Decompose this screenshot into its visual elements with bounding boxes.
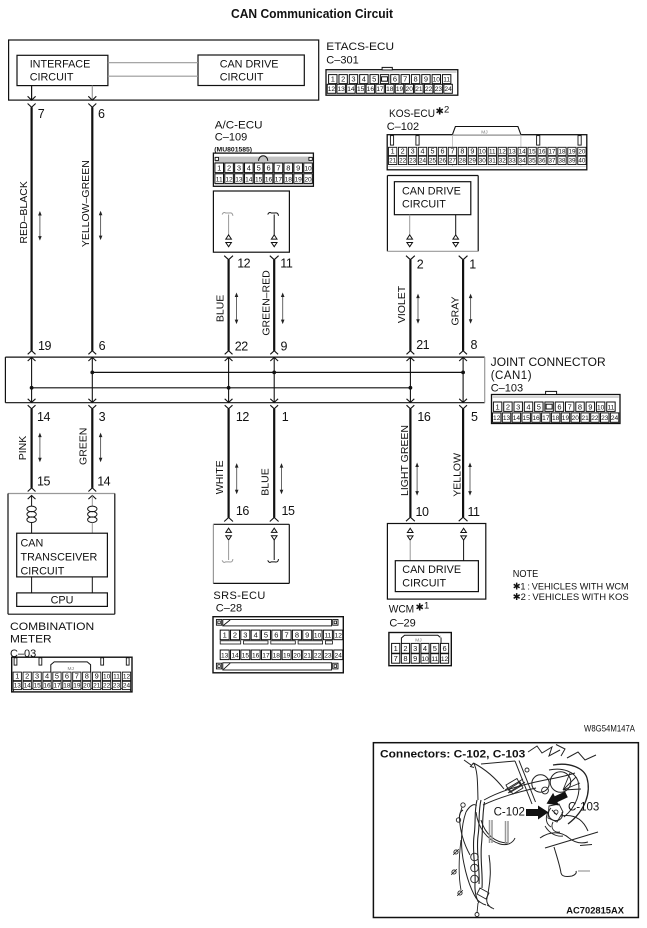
twisted-pair marker pin11 — [271, 235, 277, 239]
twisted-pair marker WCM 10 — [407, 528, 413, 532]
svg-text:22: 22 — [399, 157, 407, 164]
svg-text:3: 3 — [237, 164, 241, 173]
wire stub pin7 inside ETACS — [31, 86, 33, 101]
svg-text:2: 2 — [341, 75, 345, 84]
signal arrow PINK — [39, 436, 41, 459]
connector C-28 pin table — [213, 617, 343, 673]
svg-text:MJ: MJ — [481, 129, 488, 135]
svg-text:5: 5 — [257, 164, 261, 173]
wire BLUE (A/C 12 to joint 22) — [228, 260, 230, 351]
svg-text:12: 12 — [123, 674, 131, 681]
svg-text:CAN DRIVE: CAN DRIVE — [220, 58, 279, 70]
wire transceiver-to-CPU left — [31, 577, 33, 593]
svg-text:AC702815AX: AC702815AX — [566, 906, 624, 917]
svg-text:11: 11 — [280, 256, 293, 270]
svg-text:2: 2 — [444, 105, 449, 116]
svg-text:5: 5 — [433, 644, 437, 653]
svg-text:CIRCUIT: CIRCUIT — [220, 71, 264, 83]
svg-text:10: 10 — [421, 656, 429, 663]
joint connector bottom chevrons 9/1 — [270, 399, 278, 403]
svg-text:SRS-ECU: SRS-ECU — [213, 590, 265, 602]
svg-text:6: 6 — [266, 164, 270, 173]
joint connector bottom chevrons 6/3 — [88, 399, 96, 403]
joint connector bottom chevrons 21/16 — [407, 399, 415, 403]
twisted-pair marker pin2 — [407, 235, 413, 239]
signal arrow BLUE lower — [281, 467, 283, 491]
SRS entry chevron pin16 — [224, 518, 233, 522]
svg-text:CIRCUIT: CIRCUIT — [402, 578, 446, 590]
svg-text:20: 20 — [304, 176, 312, 183]
svg-text:MJ: MJ — [415, 638, 422, 644]
svg-text:20: 20 — [406, 86, 414, 93]
svg-text:15: 15 — [529, 149, 537, 156]
svg-text:A/C-ECU: A/C-ECU — [215, 119, 263, 131]
svg-text:WHITE: WHITE — [214, 460, 226, 494]
connector exit chevron pin11 — [270, 256, 279, 260]
svg-text:CAN DRIVE: CAN DRIVE — [402, 564, 461, 576]
svg-text:8: 8 — [460, 147, 464, 156]
joint connector top chevrons 6/3 — [88, 351, 96, 355]
terminal stub SRS 15 — [273, 540, 275, 560]
svg-text:19: 19 — [396, 86, 404, 93]
svg-text:YELLOW: YELLOW — [452, 453, 464, 497]
svg-text:16: 16 — [43, 683, 51, 690]
svg-text:12: 12 — [335, 633, 343, 640]
svg-text:24: 24 — [611, 415, 619, 422]
svg-text:3: 3 — [411, 147, 415, 156]
svg-text:4: 4 — [254, 631, 258, 640]
svg-text:22: 22 — [235, 340, 248, 354]
svg-text:(MU801585): (MU801585) — [214, 146, 252, 153]
svg-text:26: 26 — [439, 157, 447, 164]
svg-text:12: 12 — [328, 86, 336, 93]
svg-text:22: 22 — [591, 415, 599, 422]
terminal stub WCM 11 — [463, 540, 465, 561]
svg-text:18: 18 — [63, 683, 71, 690]
joint connector bottom chevrons 8/5 — [459, 399, 467, 403]
svg-text:16: 16 — [532, 415, 540, 422]
twisted-pair marker SRS 15 — [271, 528, 277, 532]
svg-text:15: 15 — [37, 474, 50, 488]
svg-text:15: 15 — [357, 86, 365, 93]
svg-text:16: 16 — [265, 176, 273, 183]
svg-text:17: 17 — [53, 683, 61, 690]
svg-text:6: 6 — [440, 147, 444, 156]
svg-text:2: 2 — [227, 164, 231, 173]
svg-text:9: 9 — [95, 672, 99, 681]
svg-text:8: 8 — [414, 75, 418, 84]
svg-text:32: 32 — [499, 157, 507, 164]
CAN drive circuit block (WCM) — [395, 561, 478, 592]
connector exit chevron pin12 — [224, 256, 233, 260]
junction node bus-H wire8 — [461, 371, 465, 375]
CAN-H bus line — [92, 371, 463, 373]
svg-text:13: 13 — [337, 86, 345, 93]
svg-text:1: 1 — [331, 75, 335, 84]
signal arrow GREEN — [100, 436, 102, 459]
connector C-102 pin table — [387, 135, 587, 170]
svg-text:RED–BLACK: RED–BLACK — [18, 181, 30, 243]
svg-text:7: 7 — [276, 164, 280, 173]
svg-text:31: 31 — [489, 157, 497, 164]
svg-text:14: 14 — [37, 410, 50, 424]
signal arrow VIOLET — [417, 297, 419, 320]
svg-text:1: 1 — [391, 147, 395, 156]
svg-text:22: 22 — [314, 653, 322, 660]
wire YELLOW-GREEN (pin6 to joint 6) — [91, 107, 93, 350]
svg-text:10: 10 — [304, 166, 312, 173]
svg-text:CAN DRIVE: CAN DRIVE — [402, 186, 461, 198]
svg-text:30: 30 — [479, 157, 487, 164]
svg-text:1: 1 — [469, 257, 476, 271]
WCM box — [387, 524, 485, 600]
svg-text:1: 1 — [424, 601, 429, 612]
svg-text:14: 14 — [245, 176, 253, 183]
svg-text:GREEN–RED: GREEN–RED — [261, 270, 273, 336]
svg-text:4: 4 — [526, 402, 530, 411]
svg-text:10: 10 — [103, 674, 111, 681]
svg-text:24: 24 — [123, 683, 131, 690]
svg-text:37: 37 — [549, 157, 557, 164]
svg-text:8: 8 — [295, 631, 299, 640]
svg-text:10: 10 — [479, 149, 487, 156]
signal arrow GREEN-RED — [282, 296, 284, 321]
svg-text:16: 16 — [367, 86, 375, 93]
svg-text:39: 39 — [568, 157, 576, 164]
svg-text:19: 19 — [294, 176, 302, 183]
svg-text:5: 5 — [55, 672, 59, 681]
svg-text:20: 20 — [572, 415, 580, 422]
joint connector pass-through wire 8/5 — [462, 357, 464, 403]
svg-text:20: 20 — [293, 653, 301, 660]
svg-text:ETACS-ECU: ETACS-ECU — [326, 41, 394, 53]
svg-text:6: 6 — [442, 644, 446, 653]
svg-text:2: 2 — [401, 147, 405, 156]
svg-text:11: 11 — [431, 656, 438, 663]
svg-text:3: 3 — [351, 75, 355, 84]
CAN transceiver circuit block — [17, 533, 108, 577]
svg-text:C–28: C–28 — [216, 603, 242, 615]
svg-text:25: 25 — [429, 157, 437, 164]
svg-text:21: 21 — [416, 338, 429, 352]
svg-text:9: 9 — [296, 164, 300, 173]
svg-text:12: 12 — [441, 656, 449, 663]
svg-text:23: 23 — [435, 86, 443, 93]
svg-text:3: 3 — [99, 410, 106, 424]
svg-text:YELLOW–GREEN: YELLOW–GREEN — [80, 160, 92, 247]
svg-text:18: 18 — [285, 176, 293, 183]
svg-text:8: 8 — [403, 654, 407, 663]
svg-text:2: 2 — [233, 631, 237, 640]
svg-text:35: 35 — [529, 157, 537, 164]
svg-text:34: 34 — [519, 157, 527, 164]
svg-text:1: 1 — [223, 631, 227, 640]
joint connector pass-through wire 9/1 — [273, 357, 275, 403]
A/C-ECU box — [213, 191, 289, 252]
svg-text:KOS-ECU: KOS-ECU — [389, 108, 435, 120]
svg-text:7: 7 — [394, 654, 398, 663]
svg-text:C–102: C–102 — [387, 121, 419, 133]
svg-text:14: 14 — [231, 653, 239, 660]
svg-text:21: 21 — [415, 86, 423, 93]
svg-text:14: 14 — [97, 474, 110, 488]
svg-text:19: 19 — [38, 339, 51, 353]
joint connector pass-through wire 6/3 — [91, 357, 93, 403]
svg-text:VIOLET: VIOLET — [396, 285, 408, 323]
svg-text:18: 18 — [558, 149, 566, 156]
svg-text:23: 23 — [409, 157, 417, 164]
svg-text:2: 2 — [417, 257, 424, 271]
svg-text:CIRCUIT: CIRCUIT — [21, 565, 65, 577]
svg-text:16: 16 — [417, 410, 430, 424]
svg-text:33: 33 — [509, 157, 517, 164]
svg-text:24: 24 — [419, 157, 427, 164]
connector C-301 pin table — [326, 70, 458, 96]
svg-text:1: 1 — [217, 164, 221, 173]
svg-text:17: 17 — [275, 176, 283, 183]
svg-text:15: 15 — [242, 653, 250, 660]
svg-text:15: 15 — [33, 683, 41, 690]
signal arrow YELLOW-GREEN — [100, 214, 102, 236]
svg-text:11: 11 — [216, 176, 223, 183]
C-102 pointer arrow — [526, 806, 549, 820]
svg-text:BLUE: BLUE — [259, 468, 271, 495]
svg-text:14: 14 — [519, 149, 527, 156]
wire GREEN-RED (A/C 11 to joint 9) — [273, 260, 275, 351]
svg-text:9: 9 — [424, 75, 428, 84]
svg-text:19: 19 — [568, 149, 576, 156]
joint connector bottom chevrons 22/12 — [225, 399, 233, 403]
svg-text:PINK: PINK — [17, 436, 29, 461]
junction node bus-L wire21 — [409, 386, 413, 390]
svg-text:8: 8 — [471, 338, 478, 352]
svg-text:20: 20 — [83, 683, 91, 690]
joint connector pass-through wire 22/12 — [228, 357, 230, 403]
connector C-109 pin table — [213, 153, 313, 186]
CAN-L bus line — [32, 387, 411, 389]
svg-text:1: 1 — [15, 672, 19, 681]
svg-text:9: 9 — [281, 340, 288, 354]
connector exit chevron pin2 — [406, 256, 415, 260]
SRS entry chevron pin15 — [270, 518, 279, 522]
svg-text:17: 17 — [542, 415, 550, 422]
svg-text:✱2 : VEHICLES WITH KOS: ✱2 : VEHICLES WITH KOS — [513, 592, 629, 602]
svg-text:21: 21 — [389, 157, 397, 164]
svg-text:24: 24 — [444, 86, 452, 93]
twisted-pair marker SRS 16 — [226, 528, 232, 532]
connector C-103 pin table — [492, 395, 621, 424]
wire stub pin6 inside ETACS — [91, 86, 93, 101]
wire BLUE (joint 1 to SRS 15) — [273, 409, 275, 518]
terminal stub pin11 (A/C) — [268, 213, 279, 216]
signal arrow LIGHT GREEN — [416, 466, 418, 492]
signal arrow RED-BLACK — [39, 215, 41, 238]
svg-text:3: 3 — [516, 402, 520, 411]
svg-text:4: 4 — [421, 147, 425, 156]
svg-text:21: 21 — [304, 653, 312, 660]
svg-text:12: 12 — [499, 149, 507, 156]
svg-text:14: 14 — [513, 415, 521, 422]
svg-text:17: 17 — [549, 149, 557, 156]
svg-text:24: 24 — [335, 653, 343, 660]
svg-text:INTERFACE: INTERFACE — [30, 58, 91, 70]
coil filter L2 — [91, 496, 93, 507]
svg-text:21: 21 — [581, 415, 589, 422]
svg-text:9: 9 — [470, 147, 474, 156]
wire link interface-to-candrive — [108, 62, 198, 64]
wire WHITE (joint 12 to SRS 16) — [228, 409, 230, 518]
svg-text:6: 6 — [99, 339, 106, 353]
svg-text:7: 7 — [38, 107, 45, 121]
connector exit chevrons pin 6 — [88, 96, 96, 100]
svg-text:6: 6 — [65, 672, 69, 681]
combination meter box — [8, 493, 115, 495]
svg-text:11: 11 — [324, 633, 331, 640]
C-103 pointer arrow — [544, 788, 570, 810]
svg-text:5: 5 — [471, 410, 478, 424]
twisted-pair marker pin12 — [226, 235, 232, 239]
svg-text:23: 23 — [324, 653, 332, 660]
svg-text:36: 36 — [539, 157, 547, 164]
connector C-29 pin table — [389, 633, 451, 666]
svg-text:7: 7 — [403, 75, 407, 84]
joint connector top chevrons 9/1 — [270, 351, 278, 355]
svg-text:GRAY: GRAY — [449, 297, 461, 326]
svg-text:4: 4 — [362, 75, 366, 84]
svg-text:21: 21 — [93, 683, 101, 690]
svg-text:10: 10 — [597, 404, 605, 411]
svg-text:6: 6 — [393, 75, 397, 84]
svg-text:4: 4 — [247, 164, 251, 173]
svg-text:7: 7 — [285, 631, 289, 640]
svg-text:3: 3 — [35, 672, 39, 681]
svg-text:COMBINATION: COMBINATION — [10, 621, 94, 633]
svg-text:7: 7 — [75, 672, 79, 681]
svg-text:BLUE: BLUE — [214, 295, 226, 322]
svg-text:LIGHT GREEN: LIGHT GREEN — [399, 425, 411, 496]
svg-text:WCM: WCM — [389, 604, 415, 616]
svg-text:1: 1 — [282, 410, 289, 424]
svg-text:CIRCUIT: CIRCUIT — [402, 199, 446, 211]
WCM entry chevron pin11 — [459, 517, 468, 521]
svg-text:28: 28 — [459, 157, 467, 164]
joint connector box C-103 — [5, 356, 484, 358]
terminal stub SRS 16 — [228, 540, 230, 560]
svg-text:JOINT CONNECTOR: JOINT CONNECTOR — [491, 357, 606, 369]
svg-text:2: 2 — [506, 402, 510, 411]
svg-text:3: 3 — [243, 631, 247, 640]
svg-text:16: 16 — [236, 504, 249, 518]
svg-text:16: 16 — [539, 149, 547, 156]
svg-text:3: 3 — [413, 644, 417, 653]
svg-text:✱: ✱ — [416, 603, 424, 614]
svg-text:11: 11 — [468, 505, 481, 519]
svg-text:22: 22 — [103, 683, 111, 690]
svg-text:19: 19 — [283, 653, 291, 660]
wire VIOLET (KOS 2 to joint 21) — [409, 260, 411, 351]
svg-text:15: 15 — [255, 176, 263, 183]
wire transceiver-to-CPU right — [91, 577, 93, 593]
signal arrow GRAY — [470, 297, 472, 320]
svg-text:14: 14 — [347, 86, 355, 93]
svg-text:19: 19 — [73, 683, 81, 690]
CAN drive circuit block (ETACS) — [198, 55, 304, 86]
terminal stub WCM 10 — [409, 540, 411, 561]
svg-text:4: 4 — [45, 672, 49, 681]
junction node bus-H wire6 — [90, 371, 94, 375]
svg-text:11: 11 — [489, 149, 496, 156]
svg-text:18: 18 — [386, 86, 394, 93]
svg-text:18: 18 — [552, 415, 560, 422]
svg-text:23: 23 — [113, 683, 121, 690]
svg-text:5: 5 — [537, 402, 541, 411]
svg-text:2: 2 — [403, 644, 407, 653]
svg-text:(CAN1): (CAN1) — [491, 370, 532, 382]
svg-text:13: 13 — [509, 149, 517, 156]
signal arrow YELLOW — [469, 466, 471, 492]
svg-text:11: 11 — [608, 404, 615, 411]
svg-text:5: 5 — [431, 147, 435, 156]
svg-text:13: 13 — [235, 176, 243, 183]
svg-text:C–103: C–103 — [491, 382, 523, 394]
svg-text:✱: ✱ — [436, 107, 444, 118]
svg-text:9: 9 — [413, 654, 417, 663]
svg-text:6: 6 — [557, 402, 561, 411]
svg-text:2: 2 — [25, 672, 29, 681]
terminal stub pin12 (A/C) — [222, 213, 233, 216]
svg-text:11: 11 — [113, 674, 120, 681]
svg-text:13: 13 — [221, 653, 229, 660]
svg-text:C-103: C-103 — [568, 801, 599, 813]
svg-text:6: 6 — [98, 107, 105, 121]
svg-text:7: 7 — [450, 147, 454, 156]
svg-text:22: 22 — [425, 86, 433, 93]
svg-text:Connectors: C-102, C-103: Connectors: C-102, C-103 — [380, 748, 525, 760]
connector exit chevron pin1 — [459, 256, 468, 260]
KOS-ECU box — [387, 175, 478, 177]
meter entry chevrons pin15 — [28, 488, 36, 492]
svg-text:6: 6 — [274, 631, 278, 640]
terminal stub pin1 (KOS) — [455, 215, 457, 235]
svg-text:18: 18 — [273, 653, 281, 660]
svg-text:1: 1 — [394, 644, 398, 653]
interface circuit block — [17, 55, 108, 85]
coil filter L1 — [31, 496, 33, 507]
svg-text:C–109: C–109 — [215, 132, 247, 144]
wire RED-BLACK (pin7 to joint 19) — [31, 107, 33, 350]
joint connector top chevrons 19/14 — [28, 351, 36, 355]
junction node bus-L wire22 — [227, 386, 231, 390]
junction node bus-H wire9 — [272, 371, 276, 375]
svg-text:4: 4 — [423, 644, 427, 653]
wire LIGHT GREEN (joint 16 to WCM 10) — [409, 409, 411, 517]
joint connector bottom chevrons 19/14 — [28, 399, 36, 403]
connector exit chevrons pin 7 — [28, 96, 36, 100]
svg-text:✱1 : VEHICLES WITH WCM: ✱1 : VEHICLES WITH WCM — [513, 582, 629, 592]
signal arrow WHITE — [236, 467, 238, 491]
svg-text:38: 38 — [558, 157, 566, 164]
wire GREEN (joint 3 to meter 14) — [91, 409, 93, 488]
svg-text:CAN: CAN — [21, 537, 44, 549]
svg-text:40: 40 — [578, 157, 586, 164]
svg-text:CPU: CPU — [51, 595, 74, 607]
svg-text:12: 12 — [237, 256, 250, 270]
svg-text:17: 17 — [376, 86, 384, 93]
svg-text:19: 19 — [562, 415, 570, 422]
svg-text:TRANSCEIVER: TRANSCEIVER — [21, 551, 98, 563]
svg-text:W8G54M147A: W8G54M147A — [584, 724, 635, 734]
twisted-pair marker WCM 11 — [461, 528, 467, 532]
